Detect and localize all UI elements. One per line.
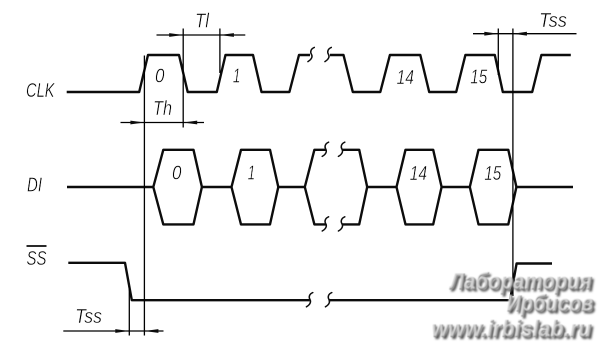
node DI break hexagon [305, 150, 367, 225]
arrowhead Tss top right [513, 32, 527, 36]
dimension line Tss top [473, 33, 577, 35]
svg-text:14: 14 [410, 163, 428, 185]
svg-text:15: 15 [484, 163, 502, 185]
svg-text:SS: SS [27, 247, 47, 270]
node DI bit 15 hexagon [470, 150, 517, 225]
svg-text:Tss: Tss [539, 9, 567, 32]
svg-text:Tss: Tss [75, 305, 102, 328]
wire SS waveform right segment [329, 264, 553, 301]
break squiggle CLK left [308, 47, 314, 61]
svg-text:1: 1 [233, 66, 241, 88]
break squiggle CLK right [325, 47, 331, 61]
dimension line Tss bottom [63, 330, 163, 332]
wire DI tail line [516, 186, 573, 188]
svg-text:Tl: Tl [195, 10, 210, 33]
node DI bit 1 hexagon [232, 150, 279, 225]
node DI bit 14 hexagon [397, 150, 442, 225]
node DI bit 0 hexagon [153, 150, 202, 225]
arrowhead Tss top left [484, 32, 498, 36]
SS overline [27, 245, 47, 247]
svg-text:1: 1 [248, 162, 256, 184]
break squiggle SS left [306, 293, 312, 307]
break squiggle SS right [325, 293, 331, 307]
break squiggle DI top right [338, 142, 344, 156]
svg-text:CLK: CLK [26, 79, 55, 102]
arrowhead Tss bottom left [115, 329, 129, 333]
extension line from SS falling edge [128, 286, 130, 336]
break squiggle DI top left [322, 142, 328, 156]
svg-text:DI: DI [27, 174, 42, 197]
wire DI link 0-1 [202, 186, 232, 188]
arrowhead Tl right [220, 33, 234, 37]
wire SS waveform left segment [68, 263, 309, 300]
svg-text:Ирбисов: Ирбисов [506, 290, 593, 316]
arrowhead Tss bottom right [144, 329, 158, 333]
extension line from CLK first rising edge (long) [143, 56, 145, 336]
wire DI link break-14 [367, 186, 396, 188]
wire CLK waveform right segment [330, 55, 571, 92]
watermark Laboratoria Irbisov [431, 268, 596, 344]
wire DI link 14-15 [442, 186, 470, 188]
break squiggle DI bottom right [338, 217, 344, 231]
wire DI lead line [67, 186, 153, 188]
wire CLK waveform left segment [67, 55, 310, 92]
svg-text:0: 0 [155, 66, 165, 88]
extension line from CLK pulse0 falling edge [182, 29, 184, 128]
svg-text:14: 14 [397, 67, 415, 89]
arrowhead Th right [183, 121, 197, 125]
dimension line Tl [157, 34, 246, 36]
svg-text:15: 15 [470, 67, 488, 89]
dimension line Th [121, 122, 205, 124]
svg-text:Th: Th [153, 97, 172, 120]
arrowhead Th left [130, 121, 144, 125]
wire DI link 1-break [278, 186, 305, 188]
arrowhead Tl left [169, 33, 183, 37]
extension line from CLK pulse1 rising edge [219, 29, 221, 74]
extension line from CLK pulse15 falling edge [497, 29, 499, 76]
svg-text:www.irbislab.ru: www.irbislab.ru [431, 315, 591, 341]
break squiggle DI bottom left [322, 217, 328, 231]
extension line from SS rising edge (long) [512, 29, 514, 297]
svg-text:0: 0 [172, 162, 182, 184]
